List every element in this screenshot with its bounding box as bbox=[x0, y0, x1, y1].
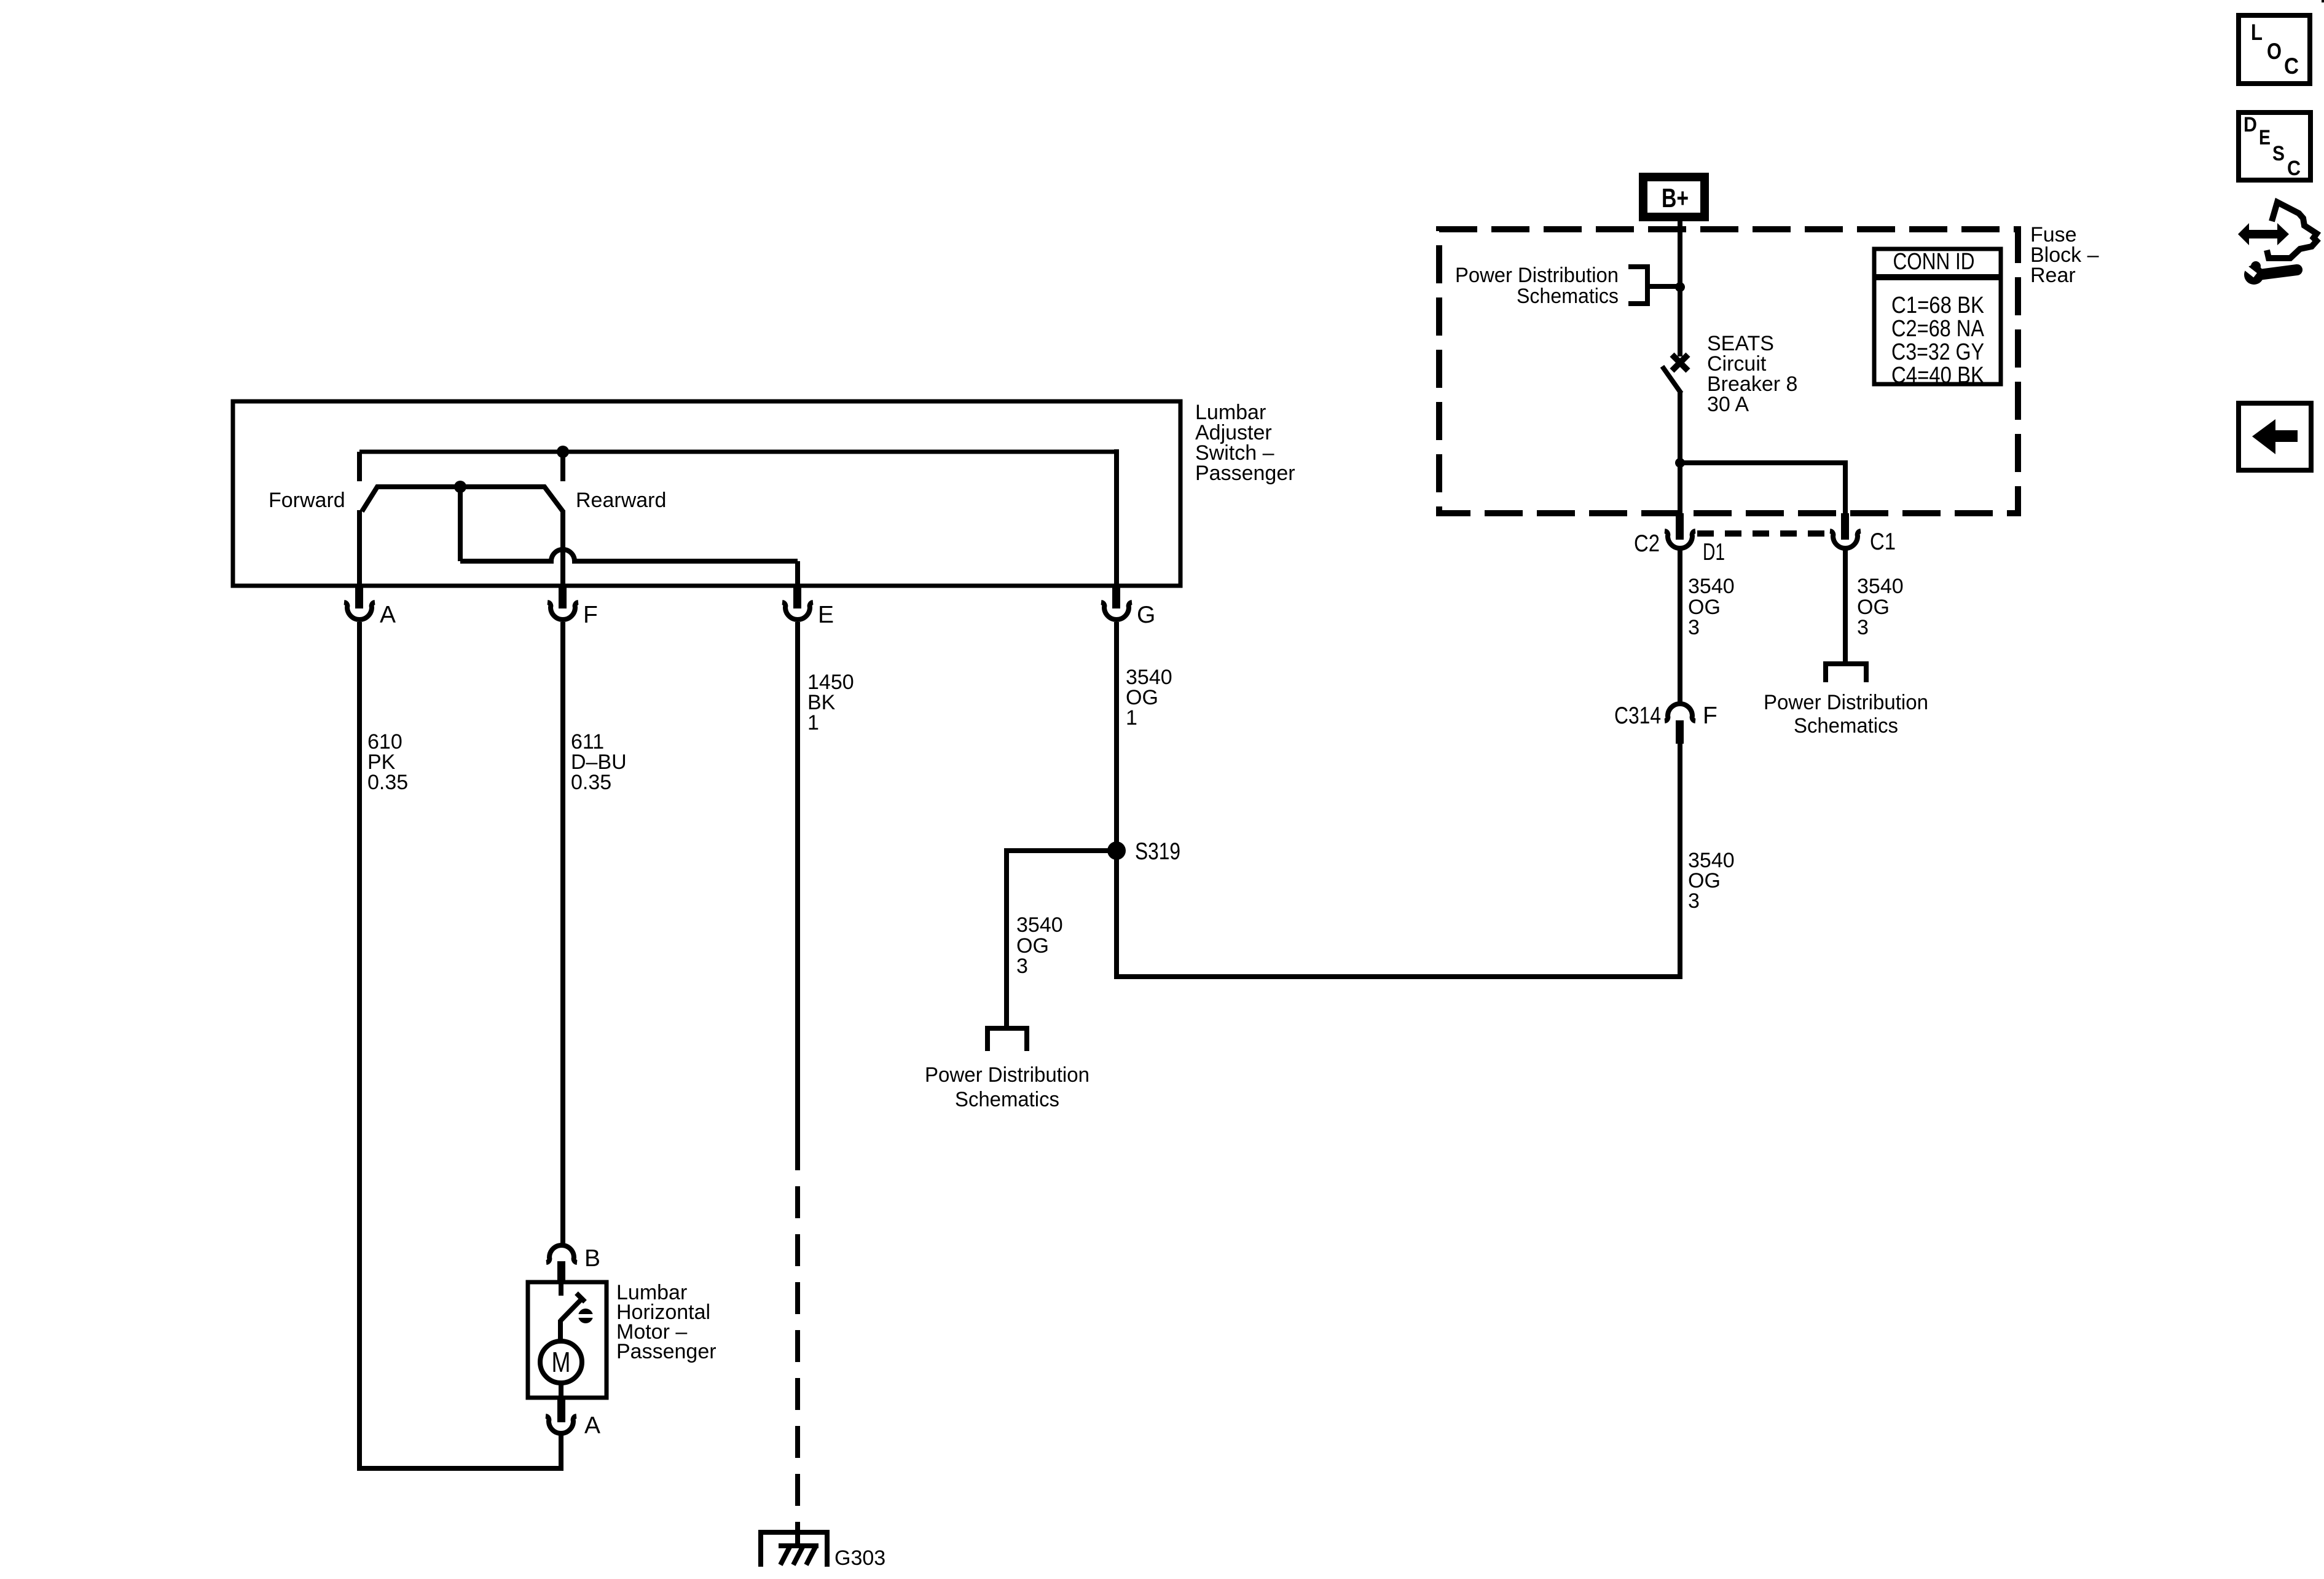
svg-text:3: 3 bbox=[1857, 616, 1869, 639]
svg-text:S319: S319 bbox=[1135, 838, 1180, 865]
svg-text:Schematics: Schematics bbox=[1794, 714, 1898, 738]
svg-text:Power Distribution: Power Distribution bbox=[1455, 264, 1619, 287]
svg-text:M: M bbox=[552, 1346, 571, 1378]
svg-text:3540: 3540 bbox=[1016, 913, 1063, 937]
svg-text:1: 1 bbox=[1126, 706, 1137, 730]
svg-text:C: C bbox=[2287, 157, 2301, 180]
svg-text:3: 3 bbox=[1016, 955, 1028, 978]
svg-text:G: G bbox=[1137, 602, 1155, 628]
svg-text:D: D bbox=[2244, 113, 2257, 136]
svg-text:Forward: Forward bbox=[269, 489, 345, 512]
svg-text:C1=68 BK: C1=68 BK bbox=[1891, 293, 1984, 318]
svg-text:3540: 3540 bbox=[1688, 575, 1735, 598]
svg-text:A: A bbox=[380, 602, 396, 628]
svg-text:E: E bbox=[2259, 126, 2271, 149]
svg-text:C: C bbox=[2284, 53, 2299, 79]
svg-text:0.35: 0.35 bbox=[367, 771, 408, 794]
svg-text:1: 1 bbox=[807, 711, 819, 734]
svg-text:F: F bbox=[1703, 703, 1717, 729]
svg-text:Power Distribution: Power Distribution bbox=[1764, 691, 1928, 714]
svg-text:C1: C1 bbox=[1870, 529, 1896, 555]
svg-text:Passenger: Passenger bbox=[616, 1340, 716, 1363]
svg-text:Rearward: Rearward bbox=[576, 489, 666, 512]
svg-text:0.35: 0.35 bbox=[571, 771, 611, 794]
svg-text:F: F bbox=[583, 602, 598, 628]
svg-text:Schematics: Schematics bbox=[955, 1088, 1059, 1111]
svg-text:CONN ID: CONN ID bbox=[1893, 249, 1975, 275]
svg-text:C314: C314 bbox=[1614, 703, 1661, 729]
svg-text:D1: D1 bbox=[1703, 539, 1725, 565]
svg-text:Power Distribution: Power Distribution bbox=[925, 1063, 1089, 1087]
svg-text:C3=32 GY: C3=32 GY bbox=[1891, 339, 1984, 365]
svg-text:B: B bbox=[584, 1245, 600, 1272]
svg-text:C2=68 NA: C2=68 NA bbox=[1891, 316, 1985, 342]
svg-text:B+: B+ bbox=[1662, 183, 1689, 213]
svg-text:3: 3 bbox=[1688, 616, 1700, 639]
svg-text:S: S bbox=[2272, 142, 2285, 165]
svg-text:C4=40 BK: C4=40 BK bbox=[1891, 363, 1984, 388]
svg-text:C2: C2 bbox=[1634, 530, 1660, 557]
svg-text:E: E bbox=[818, 602, 834, 628]
svg-text:L: L bbox=[2251, 20, 2263, 45]
svg-text:O: O bbox=[2267, 39, 2282, 64]
svg-text:Passenger: Passenger bbox=[1195, 462, 1295, 485]
svg-text:Schematics: Schematics bbox=[1517, 285, 1619, 308]
svg-text:G303: G303 bbox=[834, 1546, 885, 1570]
svg-text:3: 3 bbox=[1688, 889, 1700, 913]
svg-text:30 A: 30 A bbox=[1707, 393, 1749, 416]
svg-text:Rear: Rear bbox=[2030, 264, 2076, 287]
svg-text:3540: 3540 bbox=[1857, 575, 1904, 598]
svg-text:A: A bbox=[584, 1412, 600, 1439]
